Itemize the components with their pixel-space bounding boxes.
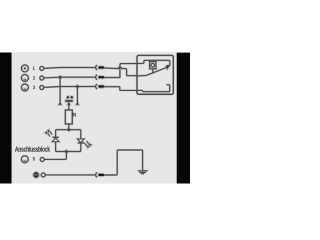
junction dot led box top — [68, 128, 71, 131]
wire row 1 to relay box with crossover hump and step down — [104, 67, 137, 76]
connector socket row 1 — [96, 65, 98, 70]
label 5 — [33, 157, 35, 160]
connector socket row 2 — [96, 75, 98, 80]
relay pivot square — [150, 62, 156, 69]
wire row 2 riser into relay box — [104, 63, 144, 77]
relay box outline — [137, 55, 173, 94]
scan softening underlay — [21, 55, 173, 177]
LED D1 cathode bar — [52, 136, 58, 138]
connector plug row 3 — [98, 85, 104, 87]
connector plug row 2 — [98, 76, 104, 78]
terminal 3 inner mark — [24, 89, 26, 90]
label 3 — [33, 86, 35, 89]
figure gray background — [12, 52, 177, 184]
wire row 3 drop to contact plate — [76, 87, 78, 103]
relay pivot stem — [152, 69, 154, 74]
LED D1 arrowheads — [45, 130, 49, 134]
LED D1 (left, pointing up) — [52, 138, 59, 142]
screw terminal — [33, 172, 39, 178]
pin socket screw row — [41, 173, 45, 177]
relay upper contact contour (from row 2 wire) — [144, 60, 170, 65]
label 2 — [33, 76, 35, 79]
LED D2 (right, pointing down) — [78, 139, 85, 143]
label Anschlussblock — [15, 146, 50, 151]
terminal 2 inner mark — [24, 79, 26, 80]
terminal 2 — [21, 75, 28, 82]
contact foot left — [59, 102, 62, 105]
distributor plate dot right — [71, 96, 73, 98]
contact foot center — [67, 102, 70, 105]
wire row 2 left — [44, 76, 95, 79]
contact foot right — [76, 102, 79, 105]
connector plug screw row — [98, 174, 104, 176]
wire resistor to led box — [68, 124, 70, 130]
terminal 5 — [21, 156, 28, 163]
wire row 3 left — [44, 86, 95, 89]
wire led box to terminal 5 — [44, 152, 66, 160]
wire screw row left — [45, 174, 95, 176]
connector socket row 3 — [96, 84, 98, 89]
left black scan bar — [0, 53, 12, 184]
pin socket row 1 — [40, 66, 44, 70]
junction dot row 3 — [76, 85, 79, 88]
terminal 3 — [21, 84, 28, 91]
relay lever — [137, 67, 167, 76]
pin socket row 3 — [40, 86, 44, 90]
distributor plate dot left — [67, 96, 69, 98]
label 1 — [33, 67, 35, 70]
pin socket row 2 — [40, 76, 44, 80]
relay pivot circle — [151, 63, 155, 67]
screw terminal slot — [34, 173, 39, 176]
wire screw row to ground — [104, 150, 143, 175]
LED D1 arrows — [48, 131, 53, 137]
right black scan bar — [177, 53, 190, 184]
pin socket row 5 — [40, 157, 44, 161]
junction dot row 2 — [59, 76, 62, 79]
wire row 1 left — [44, 67, 95, 70]
connector plug row 1 — [98, 66, 104, 68]
terminal 1 center dot — [24, 68, 26, 70]
led box loop — [56, 130, 81, 152]
relay lower contact (from row 3 wire) — [143, 85, 170, 92]
LED D2 cathode bar — [78, 142, 84, 144]
relay lever arrowhead — [166, 66, 169, 69]
ground symbol — [138, 171, 148, 174]
distributor plate bar — [65, 100, 72, 102]
label R — [73, 113, 76, 117]
connector socket screw row — [96, 173, 98, 178]
wire row 3 with jog into relay box — [104, 87, 143, 91]
resistor R — [65, 110, 72, 124]
LED D2 arrows — [84, 141, 89, 147]
wire contact plate to resistor — [68, 105, 70, 110]
LED D2 arrowheads — [87, 144, 91, 148]
terminal 5 inner mark — [24, 161, 26, 162]
junction dot led box bottom — [65, 150, 68, 153]
terminal 1 — [21, 65, 28, 72]
wire row 2 drop to contact plate — [59, 77, 61, 102]
